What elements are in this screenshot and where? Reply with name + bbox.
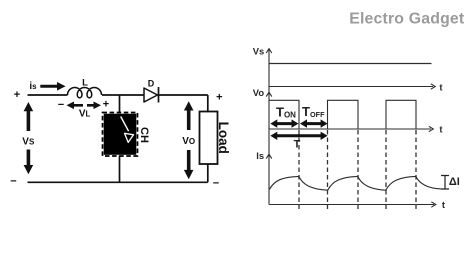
svg-text:ΔI: ΔI xyxy=(449,176,460,188)
svg-text:T: T xyxy=(294,138,301,150)
Is plot axis label xyxy=(256,150,264,161)
svg-text:VO: VO xyxy=(182,136,195,147)
chopper CH label xyxy=(138,127,150,143)
svg-text:−: − xyxy=(213,177,219,189)
VL polarity - sign xyxy=(58,99,64,111)
svg-text:+: + xyxy=(103,98,109,110)
Is ripple waveform xyxy=(270,176,442,190)
svg-text:L: L xyxy=(82,78,88,89)
svg-text:−: − xyxy=(10,176,16,188)
node + (output positive) xyxy=(216,92,222,104)
Is plot t axis xyxy=(269,202,436,207)
Is plot t label xyxy=(442,200,446,211)
Toff double arrow xyxy=(300,119,328,127)
delta I label xyxy=(449,176,460,188)
svg-text:VS: VS xyxy=(22,137,35,148)
svg-text:D: D xyxy=(148,78,155,88)
chopper CH box xyxy=(103,113,138,157)
Vo square wave xyxy=(269,100,416,129)
diode D label xyxy=(148,78,155,88)
dashed line at second rising edge xyxy=(327,130,329,209)
inductor L xyxy=(68,88,102,98)
Vo plot t axis xyxy=(269,126,434,131)
svg-text:+: + xyxy=(14,89,20,101)
svg-text:Vs: Vs xyxy=(253,46,264,57)
wire bottom rail xyxy=(28,181,208,183)
T period double arrow xyxy=(270,132,327,140)
svg-text:Is: Is xyxy=(256,150,264,161)
Vs plot vertical axis xyxy=(266,49,272,205)
T period label xyxy=(294,138,301,150)
output Vo label xyxy=(182,136,195,147)
brand text Electro Gadget xyxy=(349,11,465,28)
svg-text:+: + xyxy=(216,92,222,104)
Vs plot t label xyxy=(439,83,443,94)
node - (source negative terminal) xyxy=(10,176,16,188)
chopper switch arrow xyxy=(121,117,134,143)
VL right arrow xyxy=(87,102,101,110)
Vo plot vertical axis xyxy=(266,92,272,96)
svg-text:Load: Load xyxy=(216,122,231,154)
svg-text:Vo: Vo xyxy=(253,87,265,98)
dashed line at first falling edge xyxy=(298,130,300,209)
svg-text:Electro Gadget: Electro Gadget xyxy=(349,11,465,28)
node - (output negative) xyxy=(213,177,219,189)
VL polarity + sign xyxy=(103,98,109,110)
wire right rail xyxy=(207,95,209,182)
Ton double arrow xyxy=(270,119,298,127)
Vo plot t label xyxy=(439,124,443,135)
current is arrow xyxy=(40,82,65,91)
VL label xyxy=(79,109,91,120)
Vs constant level line xyxy=(269,63,432,65)
node + (source positive terminal) xyxy=(14,89,20,101)
svg-text:−: − xyxy=(58,99,64,111)
load resistor box xyxy=(200,112,218,165)
source Vs up arrow xyxy=(24,102,34,131)
diode D xyxy=(144,87,159,103)
inductor L label xyxy=(82,78,88,89)
dashed line at third falling edge xyxy=(415,130,417,209)
Vs plot axis label xyxy=(253,46,264,57)
svg-text:VL: VL xyxy=(79,109,91,120)
output Vo up arrow xyxy=(184,101,194,130)
dashed line at third rising edge xyxy=(385,130,387,209)
output Vo down arrow xyxy=(184,150,194,179)
VL left arrow xyxy=(67,102,84,110)
svg-text:is: is xyxy=(29,81,37,92)
wire top rail xyxy=(28,94,208,96)
source Vs down arrow xyxy=(24,150,34,175)
load label xyxy=(216,122,231,154)
current is label xyxy=(29,81,37,92)
source Vs label xyxy=(22,137,35,148)
delta I ripple marker xyxy=(441,176,449,190)
Vo plot axis label xyxy=(253,87,265,98)
Toff label xyxy=(302,104,325,119)
Ton label xyxy=(276,105,296,120)
wire chopper branch xyxy=(119,95,121,182)
Is plot vertical axis xyxy=(266,154,272,158)
dashed line at second falling edge xyxy=(357,130,359,209)
svg-text:CH: CH xyxy=(138,127,150,143)
Vs plot t axis xyxy=(269,84,436,89)
